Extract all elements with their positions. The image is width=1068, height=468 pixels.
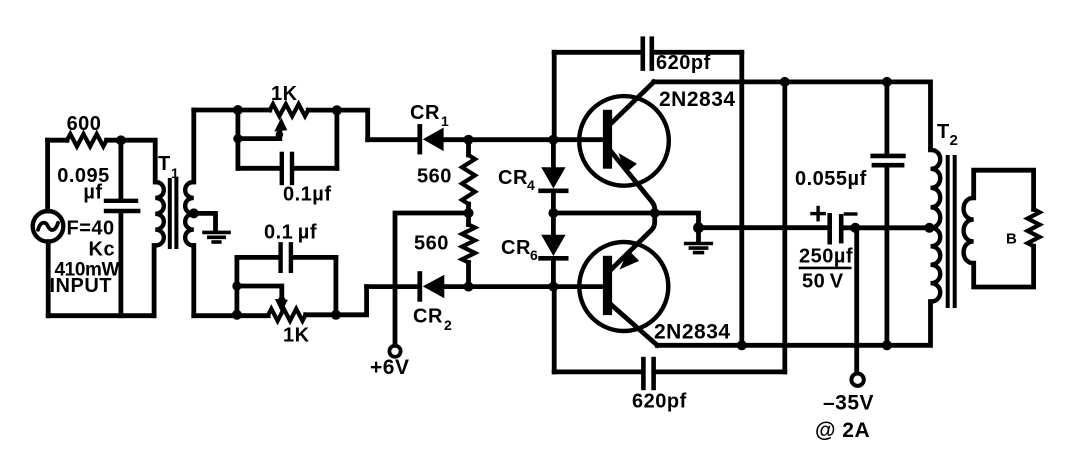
wire T1 secondary top lead	[191, 110, 196, 182]
svg-text:50 V: 50 V	[802, 271, 844, 293]
svg-text:1: 1	[171, 165, 179, 181]
svg-text:2: 2	[950, 132, 958, 149]
svg-text:+6V: +6V	[370, 356, 409, 379]
diode CR2	[420, 274, 601, 300]
wire ground stub	[696, 228, 701, 242]
terminal +6V	[389, 346, 400, 357]
resistor B load	[1028, 209, 1040, 246]
node emitter junction	[650, 208, 660, 218]
node collector rail / 0.055uf branch	[882, 77, 892, 87]
svg-text:620pf: 620pf	[656, 52, 711, 74]
svg-text:CR: CR	[413, 306, 443, 328]
wire to diode CR2	[367, 284, 418, 289]
wire 620pf top left vertical	[552, 52, 557, 139]
capacitor C7 250uf electrolytic	[830, 215, 928, 242]
wire 620pf top right lead	[654, 50, 742, 55]
capacitor C3 0.1uf (lower)	[237, 244, 336, 270]
svg-text:INPUT: INPUT	[50, 275, 113, 297]
svg-text:CR: CR	[410, 102, 440, 124]
label 250uf / 50V	[799, 246, 853, 293]
node emitter rail / diode chain	[548, 208, 558, 218]
svg-text:T: T	[158, 153, 171, 175]
svg-text:CR: CR	[498, 167, 528, 189]
svg-text:1K: 1K	[283, 325, 310, 347]
node collector rail / 620pf bottom branch	[780, 77, 790, 87]
node lower-right branch	[331, 310, 341, 320]
terminal -35V	[851, 374, 863, 386]
wire load loop bottom	[974, 246, 1034, 287]
capacitor C6 0.055uf	[873, 82, 904, 345]
wire to diode CR1	[368, 137, 418, 142]
wire +6V branch	[395, 213, 469, 345]
wire -35V lead	[854, 228, 859, 373]
AC source V1 circle	[33, 211, 64, 242]
svg-text:600: 600	[67, 113, 102, 135]
wire Q2 collector rail	[657, 302, 930, 346]
node A (600/cap junction)	[116, 135, 126, 145]
capacitor C5 620pf (bottom)	[643, 359, 653, 388]
wire T1 primary bottom lead	[152, 246, 157, 316]
svg-text:CR: CR	[501, 237, 531, 259]
wire feedback left vertical (to Q1 collector)	[782, 82, 787, 372]
svg-text:620pf: 620pf	[632, 391, 687, 413]
wiper arrow lower	[275, 297, 288, 313]
node ground junction	[693, 222, 704, 233]
transistor Q2 2N2834	[579, 213, 668, 345]
node 560/560 junction	[464, 208, 474, 218]
wire emitter rail	[553, 213, 698, 228]
node wiper tie upper	[233, 134, 242, 143]
wire Q1 collector rail	[654, 82, 931, 150]
resistor R3 560 (upper)	[462, 140, 475, 213]
wire emitter rail to 250uf	[699, 225, 828, 230]
svg-text:0.055µf: 0.055µf	[795, 168, 867, 190]
node wiper tie lower	[232, 281, 241, 290]
svg-text:2N2834: 2N2834	[659, 88, 736, 111]
svg-text:1: 1	[441, 113, 449, 129]
resistor R4 560 (lower)	[462, 213, 475, 287]
svg-text:2N2834: 2N2834	[654, 321, 731, 344]
transformer T2 core	[948, 157, 955, 306]
wire T1 secondary bottom lead	[191, 246, 196, 316]
node CR2 row / 620pf bottom branch	[548, 282, 558, 292]
svg-text:–35V: –35V	[823, 392, 874, 415]
wire T2 secondary top lead	[974, 170, 1034, 209]
transformer T1 secondary coil	[185, 182, 194, 246]
wire left branch vertical lower	[234, 257, 239, 314]
label -35V @ 2A	[815, 392, 874, 443]
diode CR4	[541, 140, 567, 235]
ground (T1 center tap)	[204, 232, 229, 242]
node Q2 collector / 0.055uf branch	[882, 340, 892, 350]
wire 1K lower right	[306, 287, 367, 315]
node T2 center tap	[924, 223, 934, 233]
svg-text:0.1µf: 0.1µf	[283, 184, 332, 206]
svg-text:@ 2A: @ 2A	[815, 419, 870, 442]
wire bottom rail to 1K R5	[194, 313, 268, 318]
transistor Q1 2N2834	[579, 82, 669, 213]
node 250uf / -35V junction	[850, 223, 860, 233]
node lower-left branch	[232, 310, 242, 320]
svg-text:Kc: Kc	[89, 239, 116, 261]
svg-text:250µf: 250µf	[799, 246, 853, 268]
svg-text:1K: 1K	[271, 83, 298, 105]
wire 620pf bottom lead	[554, 369, 641, 374]
wire wiper tie upper	[238, 132, 280, 139]
svg-text:560: 560	[417, 166, 452, 188]
capacitor C1 0.095uf	[106, 140, 138, 315]
transformer T2 secondary coil	[964, 198, 974, 263]
node CR1 row / 620pf branch	[548, 135, 558, 145]
polarity + mark	[812, 208, 824, 220]
svg-text:B: B	[1006, 231, 1017, 248]
svg-text:4: 4	[527, 177, 535, 193]
diode CR1	[420, 127, 601, 153]
capacitor C4 620pf (top)	[643, 39, 652, 69]
node T1 center tap	[189, 208, 199, 218]
diode CR6	[541, 235, 567, 287]
wire 620pf bottom right lead	[656, 369, 785, 374]
wire bottom rail left	[48, 313, 154, 318]
wire top rail to 1K R2	[194, 108, 270, 113]
node 560/CR2 junction	[464, 282, 474, 292]
wire 600 to T1 primary top	[107, 140, 156, 182]
wire 1K right to CR1 row	[308, 110, 368, 140]
wire right branch vertical upper	[334, 110, 339, 168]
wire source bottom	[46, 242, 51, 316]
svg-text:2: 2	[444, 317, 452, 333]
wire 620pf top lead	[554, 50, 640, 55]
node Q2 collector / feedback vertical	[737, 340, 747, 350]
node CR1/560 junction	[464, 135, 474, 145]
wire center tap to ground	[194, 213, 216, 230]
svg-text:F=40: F=40	[67, 218, 115, 240]
transformer T1 core	[170, 180, 177, 247]
node upper-right branch	[332, 105, 342, 115]
ground (emitter rail)	[686, 244, 712, 253]
node upper-left branch	[233, 105, 243, 115]
wire source top to 600	[45, 140, 50, 211]
svg-text:0.1 µf: 0.1 µf	[264, 222, 317, 244]
polarity - mark	[845, 212, 855, 215]
wire left branch vertical upper	[235, 110, 240, 168]
potentiometer R5 1K (lower)	[268, 309, 305, 321]
capacitor C2 0.1uf (upper)	[238, 154, 337, 183]
transformer T1 primary coil	[155, 182, 164, 246]
wiper arrow upper	[274, 118, 287, 139]
svg-text:µf: µf	[83, 182, 102, 204]
wire feedback right vertical (to Q2 collector)	[739, 52, 744, 345]
svg-text:T: T	[937, 121, 950, 143]
potentiometer R2 1K (upper)	[270, 104, 308, 116]
transformer T2 primary coil	[931, 150, 941, 302]
wire right branch vertical lower	[333, 257, 338, 314]
wire 620pf bottom left vertical	[552, 287, 557, 372]
wire wiper tie lower	[237, 286, 282, 300]
svg-text:560: 560	[414, 233, 449, 255]
svg-text:6: 6	[530, 247, 538, 263]
resistor 600	[48, 134, 107, 146]
